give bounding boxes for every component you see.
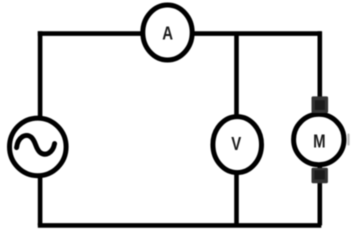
wire: left vertical (source branch) [38, 31, 43, 225]
svg-text:V: V [231, 133, 241, 154]
wire: bottom horizontal [38, 223, 322, 228]
svg-text:M: M [313, 131, 325, 152]
motor M1 top brush block [312, 96, 329, 113]
wire: right vertical (motor branch) [317, 31, 322, 225]
svg-text:A: A [162, 23, 173, 44]
AC source G1 sine wave [17, 135, 55, 154]
wire: top horizontal from left branch to motor branch [38, 31, 322, 36]
AC source G1 circle [10, 118, 67, 176]
motor M1 shaft shadow [347, 134, 349, 146]
motor M1 bottom brush block [312, 168, 328, 184]
ammeter A1 circle [143, 5, 192, 60]
voltmeter V1 circle [213, 117, 262, 173]
motor M1 circle [294, 114, 344, 164]
wire: voltmeter vertical branch [234, 34, 239, 226]
